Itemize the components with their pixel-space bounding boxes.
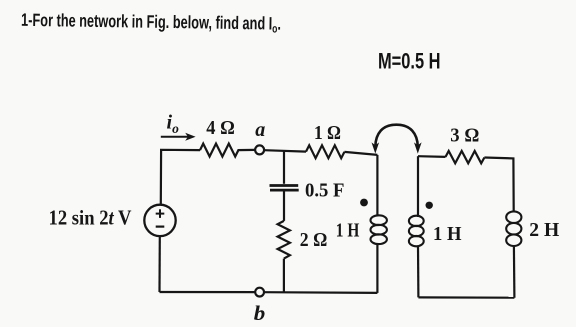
resistor R 1-ohm <box>306 145 344 158</box>
svg-text:12 sin 2t V: 12 sin 2t V <box>49 206 132 230</box>
wire: right circuit top (L2 to 3-ohm) <box>418 155 446 158</box>
svg-text:2 H: 2 H <box>529 220 559 241</box>
bottom wire right circuit <box>418 296 514 299</box>
svg-text:1 H: 1 H <box>336 220 360 241</box>
svg-text:M=0.5 H: M=0.5 H <box>378 48 441 73</box>
resistor R 3-ohm <box>446 151 485 163</box>
value label 3 ohm <box>450 126 479 147</box>
svg-text:1 H: 1 H <box>433 224 462 245</box>
inductor L1 1H (left coil) <box>371 155 387 293</box>
polarity dot (right inductor) <box>426 202 433 209</box>
svg-text:1 Ω: 1 Ω <box>314 123 341 144</box>
title text <box>21 10 281 36</box>
voltage source Vs 12 sin 2t V <box>144 205 175 236</box>
node b terminal circle <box>255 288 264 297</box>
wire: 2-ohm to bottom <box>283 259 285 293</box>
wire: node a to 1-ohm (with capacitor tap) <box>264 150 306 151</box>
source value label 12 sin 2t V <box>49 206 132 230</box>
svg-text:4 Ω: 4 Ω <box>206 118 235 139</box>
capacitor to 2-ohm wire <box>283 192 285 221</box>
wire: 3-ohm to right edge <box>484 158 513 212</box>
wire: 1-ohm to inductor L1 top <box>344 152 377 155</box>
node a terminal circle <box>255 145 264 154</box>
value label 4 ohm <box>206 118 235 139</box>
wire: top-left corner (source top to 4-ohm) <box>161 150 200 205</box>
svg-text:3 Ω: 3 Ω <box>450 126 479 147</box>
value label 2 ohm <box>300 230 328 251</box>
capacitor branch wire (top) <box>283 151 285 184</box>
capacitor C 0.5F plates <box>270 186 299 191</box>
label M=0.5 H <box>378 48 441 73</box>
value label 1 H (right) <box>433 224 462 245</box>
node label b <box>254 301 265 325</box>
svg-text:2 Ω: 2 Ω <box>300 230 328 251</box>
mutual coupling arc M <box>372 125 422 154</box>
value label 1 H (left) <box>336 220 360 241</box>
resistor R 4-ohm <box>200 144 255 157</box>
svg-text:a: a <box>255 119 265 141</box>
current label i_o <box>167 112 180 137</box>
value label 1 ohm <box>314 123 341 144</box>
value label 0.5 F <box>305 180 345 201</box>
svg-text:b: b <box>254 301 265 325</box>
current arrow i_o <box>161 133 196 141</box>
resistor R 2-ohm (vertical) <box>278 221 290 259</box>
polarity dot (left inductor) <box>360 199 368 207</box>
svg-text:0.5 F: 0.5 F <box>305 180 345 201</box>
node label a <box>255 119 265 141</box>
bottom wire left (source to node b) <box>160 291 256 293</box>
wire: source bottom lead <box>158 236 161 292</box>
inductor L3 2H (right edge coil) <box>506 211 521 297</box>
bottom wire (node b to L1 bottom) <box>264 291 377 294</box>
inductor L2 1H (right coil) <box>409 156 424 297</box>
value label 2 H <box>529 220 559 241</box>
